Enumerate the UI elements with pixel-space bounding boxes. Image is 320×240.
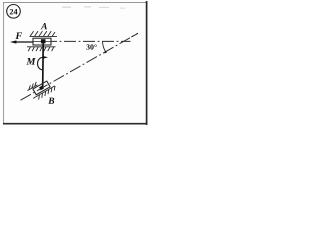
lower inclined guide hatching at B — [33, 86, 57, 102]
angle arc — [103, 41, 106, 52]
frame left border — [3, 2, 5, 124]
inclined centerline final dash — [131, 33, 138, 37]
upper fixed guide hatching at A — [30, 31, 58, 36]
slider B body — [33, 81, 50, 95]
moment label M — [26, 58, 35, 65]
pin B (filled) — [39, 86, 44, 91]
upper inclined guide hatching at B — [26, 82, 38, 91]
node label B — [48, 98, 54, 104]
horizontal dash-dot centerline — [52, 40, 131, 42]
moment M arrowhead — [42, 56, 48, 59]
force label F — [15, 32, 22, 39]
lower fixed guide hatching at A — [27, 47, 56, 51]
frame top border — [3, 1, 147, 3]
angle arc arrowhead — [105, 51, 108, 54]
slider B assembly (rotated -30deg about pin B) — [26, 75, 57, 102]
frame bottom border — [3, 123, 147, 125]
angle label 30deg — [86, 44, 96, 49]
problem number circle 24 — [7, 5, 21, 19]
frame right border — [146, 1, 148, 125]
slider A body — [33, 38, 51, 45]
moment M arc — [38, 57, 43, 69]
force F arrow (points left) — [10, 40, 33, 43]
rod AB — [42, 43, 45, 87]
scan smudges (faint) — [62, 6, 125, 9]
guide line through slider A — [34, 41, 51, 43]
inclined dash-dot centerline (30 deg) — [21, 33, 139, 100]
node label A — [41, 23, 47, 29]
pin A (filled) — [41, 39, 46, 43]
